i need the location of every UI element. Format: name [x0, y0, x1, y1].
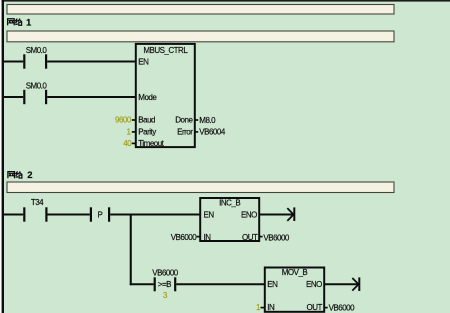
- continuation arrow after MOV_B ENO: [352, 277, 360, 291]
- contact T34: [23, 198, 47, 222]
- wire branch to compare contact: [130, 283, 154, 285]
- network 1 comment bar: [7, 31, 394, 42]
- value 40 on pin Timeout: [123, 139, 136, 148]
- network 1 title 网络 1: [8, 19, 22, 26]
- wire rail to contact SM0.0 rung1: [4, 61, 24, 63]
- svg-text:MOV_B: MOV_B: [282, 268, 308, 277]
- function block MBUS_CTRL: [136, 44, 195, 148]
- contact P (positive edge): [90, 207, 110, 221]
- operand VB6004 on pin Error: [195, 128, 226, 137]
- svg-text:VB6004: VB6004: [199, 128, 226, 137]
- svg-text:ENO: ENO: [306, 280, 322, 289]
- svg-text:Baud: Baud: [138, 116, 155, 125]
- svg-text:EN: EN: [204, 210, 215, 219]
- function block MOV_B: [265, 268, 324, 313]
- svg-text:OUT: OUT: [242, 233, 258, 242]
- operand M8.0 on pin Done: [195, 116, 216, 125]
- left power rail: [2, 0, 4, 313]
- wire rail to contact T34: [4, 214, 24, 216]
- value 9600 on pin Baud: [115, 116, 136, 125]
- value 1 on MOV_B IN: [256, 303, 265, 312]
- svg-text:VB6000: VB6000: [263, 234, 290, 243]
- operand VB6000 on INC_B OUT: [259, 234, 290, 243]
- svg-text:OUT: OUT: [307, 303, 323, 312]
- svg-text:Parity: Parity: [138, 127, 156, 136]
- wire contact to MBUS_CTRL Mode: [47, 96, 136, 98]
- value 1 on pin Parity: [126, 127, 135, 136]
- svg-text:Done: Done: [175, 116, 193, 125]
- function block INC_B: [200, 198, 259, 242]
- svg-text:IN: IN: [267, 303, 275, 312]
- branch wire down from rung: [130, 215, 132, 286]
- svg-text:VB6000: VB6000: [171, 233, 198, 242]
- svg-text:1: 1: [26, 17, 32, 28]
- svg-text:INC_B: INC_B: [219, 199, 240, 208]
- svg-text:2: 2: [27, 170, 32, 181]
- svg-text:40: 40: [123, 139, 132, 148]
- svg-text:9600: 9600: [115, 116, 132, 125]
- top border line: [2, 0, 450, 2]
- operand VB6000 on INC_B IN: [171, 233, 200, 242]
- left margin strip: [0, 0, 2, 313]
- svg-text:ENO: ENO: [241, 210, 257, 219]
- compare contact >=B with operands VB6000 and 3: [152, 268, 179, 299]
- wire compare contact to MOV_B EN: [176, 283, 264, 285]
- svg-text:VB6000: VB6000: [152, 268, 179, 277]
- svg-text:T34: T34: [31, 198, 44, 207]
- svg-text:MBUS_CTRL: MBUS_CTRL: [143, 46, 188, 55]
- svg-text:Mode: Mode: [138, 93, 157, 102]
- wire T34 to contact P: [48, 214, 90, 216]
- network 2 comment bar: [7, 182, 394, 193]
- wire contact to MBUS_CTRL EN: [47, 61, 136, 63]
- wire P to INC_B EN: [110, 214, 200, 216]
- contact SM0.0 (rung 1): [23, 46, 47, 69]
- svg-text:SM0.0: SM0.0: [26, 81, 48, 90]
- program comment bar: [7, 5, 394, 15]
- wire INC_B ENO: [259, 214, 293, 216]
- contact SM0.0 (rung 2): [23, 81, 47, 104]
- svg-text:SM0.0: SM0.0: [26, 46, 48, 55]
- network 2 title 网络 2: [8, 171, 22, 178]
- svg-text:EN: EN: [267, 280, 278, 289]
- svg-text:Timeout: Timeout: [138, 139, 164, 148]
- wire MOV_B ENO: [324, 283, 358, 285]
- svg-text:VB6000: VB6000: [329, 303, 356, 312]
- svg-text:EN: EN: [138, 58, 149, 67]
- svg-text:>=B: >=B: [158, 280, 171, 289]
- svg-text:Error: Error: [177, 127, 193, 136]
- svg-text:P: P: [97, 211, 102, 220]
- continuation arrow after INC_B ENO: [287, 207, 295, 221]
- svg-text:M8.0: M8.0: [199, 116, 216, 125]
- wire rail to contact SM0.0 rung2: [4, 96, 24, 98]
- operand VB6000 on MOV_B OUT: [324, 303, 355, 312]
- svg-text:IN: IN: [204, 233, 212, 242]
